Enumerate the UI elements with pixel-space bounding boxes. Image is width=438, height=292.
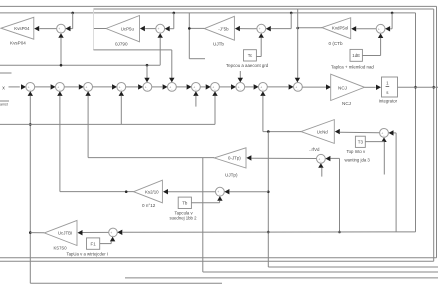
svg-text:-: - (383, 134, 384, 138)
svg-text:NCJ: NCJ (338, 85, 347, 90)
svg-text:-: - (262, 88, 263, 92)
svg-text:TapUa v a wtrtejcder I: TapUa v a wtrtejcder I (67, 251, 109, 256)
svg-text:-: - (320, 159, 321, 163)
svg-text:-: - (60, 29, 61, 33)
svg-text:1dE: 1dE (352, 53, 360, 58)
svg-text:Top Into v: Top Into v (347, 149, 366, 154)
svg-text:KvdP5ol: KvdP5ol (332, 25, 348, 30)
svg-text:-: - (240, 88, 241, 92)
svg-text:-: - (160, 29, 161, 33)
svg-text:UcP5u: UcP5u (121, 26, 135, 31)
svg-text:-: - (87, 88, 88, 92)
svg-text:-: - (261, 29, 262, 33)
svg-text:Tb: Tb (182, 201, 188, 206)
svg-text:wanting jda 3: wanting jda 3 (345, 157, 371, 162)
svg-text:-: - (147, 88, 148, 92)
svg-text:Tapcula v: Tapcula v (175, 210, 194, 215)
svg-text:UcNd: UcNd (317, 129, 329, 134)
svg-text:-: - (219, 192, 220, 196)
svg-text:-: - (214, 88, 215, 92)
svg-text:Tepcou a aaecont grd: Tepcou a aaecont grd (226, 63, 269, 68)
svg-text:KS7S0: KS7S0 (54, 245, 68, 250)
svg-text:-: - (30, 88, 31, 92)
svg-text:Integrator: Integrator (379, 99, 398, 104)
svg-text:suednej 1bb 2: suednej 1bb 2 (170, 216, 198, 221)
svg-text:-: - (380, 29, 381, 33)
svg-text:0-JTp): 0-JTp) (228, 156, 241, 161)
svg-text:NCJ: NCJ (342, 101, 351, 106)
svg-text:-: - (171, 88, 172, 92)
svg-text:-: - (59, 88, 60, 92)
svg-text:UJTb: UJTb (213, 42, 224, 47)
svg-text:F1: F1 (91, 241, 97, 246)
svg-text:amst: amst (0, 102, 8, 106)
svg-text:-: - (297, 88, 298, 92)
svg-text:T3: T3 (358, 140, 364, 145)
svg-text:0J790: 0J790 (115, 42, 128, 47)
svg-text:0 (CTb: 0 (CTb (329, 41, 343, 46)
svg-text:x: x (2, 86, 5, 92)
svg-text:UJTp): UJTp) (225, 172, 238, 177)
svg-text:..rfVd: ..rfVd (309, 147, 320, 152)
svg-text:Ks2/10: Ks2/10 (145, 190, 159, 195)
svg-text:KvsP04: KvsP04 (14, 26, 30, 31)
svg-text:-: - (121, 88, 122, 92)
svg-text:-: - (195, 88, 196, 92)
svg-text:0 n°12: 0 n°12 (142, 203, 156, 208)
svg-text:-: - (112, 233, 113, 237)
svg-text:KvsP04: KvsP04 (10, 41, 26, 46)
svg-text:Taplca + mlemlod nad: Taplca + mlemlod nad (331, 64, 374, 69)
svg-text:-J°5b: -J°5b (218, 26, 229, 31)
svg-text:UcJTBI: UcJTBI (58, 231, 72, 236)
